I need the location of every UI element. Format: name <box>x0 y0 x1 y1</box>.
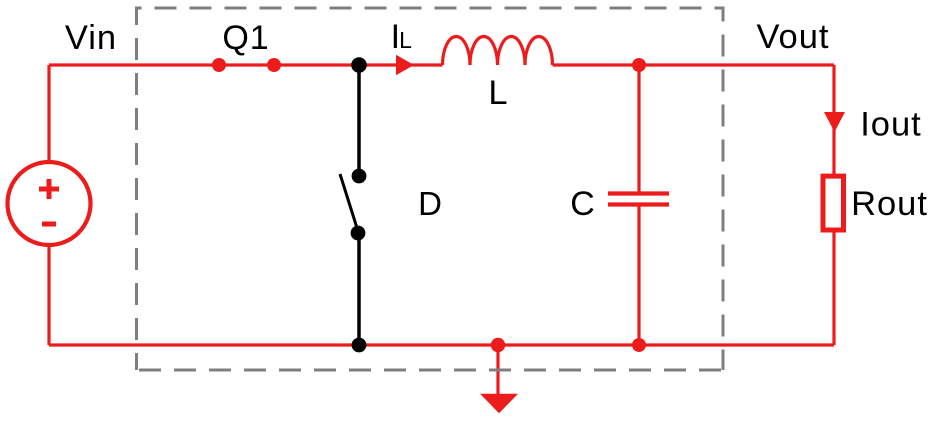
label L <box>488 74 507 112</box>
converter boundary dashed box, left+top+right edges <box>137 8 724 370</box>
diode D lower lead <box>357 233 361 345</box>
resistor Rout <box>823 176 844 230</box>
label Iout <box>860 106 922 144</box>
wire capacitor branch lower <box>637 205 640 345</box>
ground node dot <box>491 338 505 352</box>
label Vin <box>65 19 117 57</box>
diode D drawn as switch, upper lead <box>357 65 361 176</box>
label IL <box>391 18 413 56</box>
wire right vertical Rout to bottom rail <box>832 232 835 345</box>
capacitor C plates <box>608 194 669 205</box>
svg-text:L: L <box>488 74 507 112</box>
switch Q1 contact dots <box>212 58 281 72</box>
wire top rail Vin node to inductor <box>49 63 443 66</box>
wire capacitor branch upper <box>637 65 640 192</box>
diode D switch blade <box>340 174 357 228</box>
svg-text:Vin: Vin <box>65 19 117 57</box>
wire left vertical from source to bottom rail <box>47 245 50 345</box>
svg-text:L: L <box>399 27 412 53</box>
label Q1 <box>222 19 269 57</box>
node junction dot bottom of diode branch <box>352 338 367 353</box>
svg-text:Rout: Rout <box>851 185 928 223</box>
label C <box>570 185 595 223</box>
current arrow IL <box>396 55 414 75</box>
svg-text:Vout: Vout <box>756 18 829 56</box>
ground arrow head <box>480 394 518 414</box>
converter boundary dashed box, bottom edge <box>137 369 724 372</box>
wire left vertical from Vin node to source <box>47 65 50 162</box>
node junction dot bottom of capacitor branch <box>632 338 646 352</box>
voltage source Vin <box>8 162 91 245</box>
current arrow Iout <box>824 112 845 132</box>
svg-text:Q1: Q1 <box>222 19 269 57</box>
node junction dot top of diode branch <box>351 57 367 73</box>
wire top rail inductor to Vout corner <box>553 63 835 66</box>
wire bottom rail <box>49 343 834 346</box>
label D <box>418 185 442 222</box>
ground lead under boundary <box>496 345 499 397</box>
svg-text:C: C <box>570 185 595 223</box>
wire right vertical Vout to Rout <box>832 65 835 174</box>
svg-text:Iout: Iout <box>860 106 922 144</box>
svg-text:D: D <box>418 185 442 222</box>
label Vout <box>756 18 829 56</box>
inductor L coil <box>443 37 553 65</box>
label Rout <box>851 185 928 223</box>
node junction dot top of capacitor branch <box>632 58 646 72</box>
diode D switch contact dots <box>351 169 367 241</box>
